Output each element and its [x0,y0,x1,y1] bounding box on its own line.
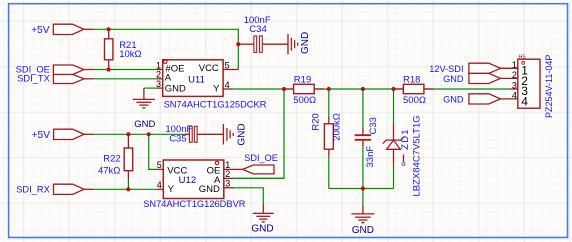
svg-text:4: 4 [521,94,528,108]
svg-text:12V-SDI: 12V-SDI [429,64,463,74]
svg-text:GND: GND [443,74,464,84]
wire R19 to R18 rail [314,88,403,90]
wire VCC drop to U12 pin5 [149,134,157,169]
capacitor C33 [362,128,364,135]
wire C33 bottom [362,147,364,189]
svg-text:5: 5 [157,160,162,170]
svg-text:GND: GND [134,119,155,130]
svg-text:+5V: +5V [32,130,51,141]
junction dot ZD1 tap [391,87,395,91]
port SDI_TX [53,75,84,84]
svg-text:C33: C33 [368,117,379,134]
port +5V bottom [54,129,84,139]
svg-text:U11: U11 [188,74,205,85]
svg-text:47kΩ: 47kΩ [98,166,120,177]
svg-text:3: 3 [512,81,517,91]
wire +5V bottom rail [94,133,185,135]
capacitor C35 [185,133,190,135]
junction dot +5V/R21 [107,27,111,31]
ground below U12 pin3 [253,204,274,222]
svg-text:500Ω: 500Ω [293,95,316,106]
wire U11 Y output to R19 [233,88,293,90]
connector H5 PZ254V-11-04P [510,88,518,90]
port SDI_OE at U12 pin1 [243,165,274,174]
junction dot VCC drop [147,132,151,136]
port SDI_RX [54,184,85,194]
svg-text:C34: C34 [249,24,266,35]
port SDI_OE [53,65,84,75]
op-amp U11 buffer SN74AHCT1G125DCKR [156,69,163,71]
svg-text:3: 3 [156,79,161,89]
svg-text:3: 3 [225,179,230,189]
svg-text:R20: R20 [311,113,322,130]
svg-text:GND: GND [300,32,311,54]
svg-text:500Ω: 500Ω [403,95,426,106]
junction dot C34 tap [236,42,240,46]
zener diode ZD1 [393,124,395,140]
wire node A vertical to U12 pin2 [234,89,284,178]
wire U12 pin3 to ground [234,188,263,204]
junction dot R22 top [126,132,130,136]
port GND row4 [469,94,501,104]
svg-text:PZ254V-11-04P: PZ254V-11-04P [544,55,554,118]
svg-text:4: 4 [225,80,230,90]
junction dot C33 tap [361,87,365,91]
resistor R19 [284,88,294,90]
svg-text:4: 4 [157,180,162,190]
svg-text:R22: R22 [103,154,120,165]
resistor R18 [394,88,404,90]
svg-text:LBZX84C7V5LT1G: LBZX84C7V5LT1G [412,115,423,196]
svg-text:GND: GND [199,184,220,195]
svg-text:A: A [165,73,172,84]
junction dot R22 bottom [126,187,130,191]
svg-text:SN74AHCT1G126DBVR: SN74AHCT1G126DBVR [143,199,246,209]
svg-text:4: 4 [512,91,517,101]
svg-text:200kΩ: 200kΩ [332,113,343,141]
junction dot Y node [282,87,286,91]
wire ZD1 bottom [393,164,395,189]
junction dot bottom rail [361,186,365,190]
svg-text:U12: U12 [179,175,196,186]
svg-text:33nF: 33nF [365,146,376,168]
svg-text:GND: GND [251,224,273,235]
resistor R22 [127,134,129,148]
svg-text:SDI_OE: SDI_OE [244,153,278,163]
wire U12 pin2 stub green [234,177,284,179]
svg-text:GND: GND [165,83,186,94]
capacitor C34 [238,43,254,45]
svg-text:SDI_RX: SDI_RX [16,185,50,195]
svg-text:1: 1 [512,60,517,70]
ZD1 NC pin stub with open end [403,155,405,163]
svg-text:5: 5 [225,60,230,70]
svg-text:Y: Y [213,83,220,94]
svg-text:10kΩ: 10kΩ [119,49,141,60]
ground bottom rail [351,204,374,222]
op-amp U12 buffer SN74AHCT1G126DBVR [157,168,164,170]
port +5V top [53,24,83,34]
ground sideways at C35 [223,124,233,144]
svg-text:ZD1: ZD1 [400,128,411,150]
ground below U11 pin3 [133,88,155,108]
wire +5V rail top [94,29,239,69]
svg-text:VCC: VCC [199,63,219,74]
junction dot R21/SDI_OE [107,67,111,71]
svg-text:GND: GND [443,95,464,105]
wire SDI_RX to U12 pin4 [94,188,157,190]
resistor R21 [108,29,110,39]
port 12V-SDI [469,63,501,73]
wire R20 bottom [328,156,330,189]
wire R20 top [328,89,330,117]
svg-text:R19: R19 [294,75,311,86]
wire GND drop bottom rail [362,189,364,205]
resistor R20 [328,117,330,124]
wire R22 bottom segment [127,180,129,190]
svg-text:R18: R18 [403,75,420,86]
wire R18 to connector pin3 [424,88,510,90]
wire SDI_OE to U11 pin1 [94,69,157,71]
svg-text:GND: GND [352,225,374,236]
wire U11 pin3 to ground [144,87,156,89]
svg-text:GND: GND [237,123,248,145]
svg-text:C35: C35 [169,134,186,145]
svg-text:H5: H5 [519,54,526,60]
wire SDI_TX to U11 pin2 [94,78,157,80]
svg-text:2: 2 [512,70,517,80]
wire bottom rail to GND [329,188,394,190]
svg-text:Y: Y [168,184,175,195]
ground sideways at C34 [288,34,298,54]
svg-text:+5V: +5V [31,25,50,36]
svg-text:SN74AHCT1G125DCKR: SN74AHCT1G125DCKR [164,99,267,109]
junction dot R20 tap [327,87,331,91]
wire ZD1 top [393,89,395,124]
port GND row2 [469,73,501,83]
svg-text:SDI_TX: SDI_TX [17,74,50,84]
wire C33 top [362,89,364,128]
